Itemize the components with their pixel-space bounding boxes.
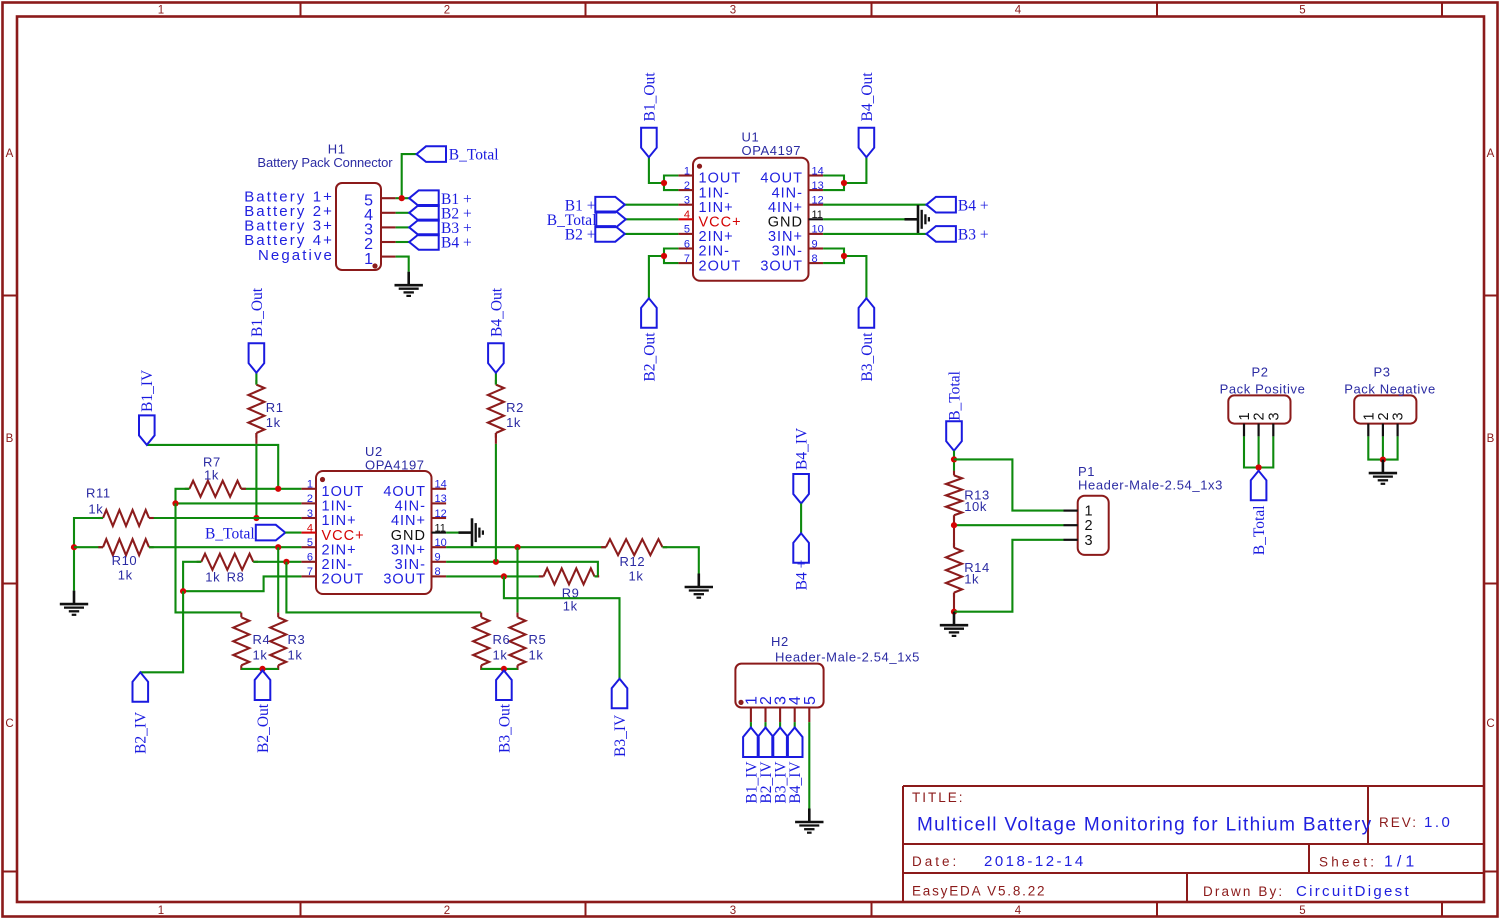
svg-text:3IN+: 3IN+ bbox=[768, 229, 803, 245]
svg-text:B4 +: B4 + bbox=[441, 235, 472, 252]
svg-text:1k: 1k bbox=[529, 648, 544, 663]
svg-text:P3: P3 bbox=[1373, 365, 1390, 380]
resistor R3 bbox=[277, 613, 279, 618]
svg-text:VCC+: VCC+ bbox=[322, 528, 365, 544]
wire 1IN- down to R4 bbox=[176, 503, 242, 612]
junction B3_Out bbox=[501, 666, 507, 672]
svg-text:4OUT: 4OUT bbox=[760, 171, 803, 187]
svg-text:2OUT: 2OUT bbox=[322, 572, 365, 588]
svg-text:B_Total: B_Total bbox=[205, 525, 255, 542]
junction R8/2OUT/B2_IV bbox=[180, 588, 186, 594]
svg-text:Pack Negative: Pack Negative bbox=[1344, 381, 1436, 396]
svg-text:3IN-: 3IN- bbox=[772, 244, 803, 260]
net flag B2 + at U1 bbox=[595, 226, 625, 242]
svg-text:10k: 10k bbox=[964, 499, 987, 514]
svg-text:B: B bbox=[1487, 433, 1495, 445]
svg-text:OPA4197: OPA4197 bbox=[365, 457, 425, 472]
ground at U1 pin11 (rotated) bbox=[905, 205, 929, 234]
svg-text:1k: 1k bbox=[964, 572, 979, 587]
junction R13 R14 bbox=[951, 522, 957, 528]
wire H1 pin1 to ground bbox=[396, 257, 409, 272]
net flag B_Total at P2 bbox=[1251, 471, 1267, 501]
svg-text:Header-Male-2.54_1x5: Header-Male-2.54_1x5 bbox=[775, 649, 920, 664]
net flag B1 + at U1 bbox=[595, 197, 625, 213]
svg-text:3: 3 bbox=[1391, 412, 1407, 420]
junction R1 1IN+ bbox=[253, 515, 259, 521]
svg-text:6: 6 bbox=[684, 238, 690, 250]
resistor R14 bbox=[953, 543, 955, 548]
svg-text:B1_IV: B1_IV bbox=[139, 369, 156, 412]
junction U1 pins 6-7 bbox=[661, 253, 667, 259]
junction U1 pins 13-14 bbox=[841, 180, 847, 186]
connector P3 Pack Negative bbox=[1354, 395, 1416, 436]
wire R12 right to ground bbox=[663, 547, 699, 573]
svg-text:1k: 1k bbox=[629, 569, 644, 584]
wire R9 right lead bbox=[595, 575, 598, 577]
wire R1 down to 1IN+ bbox=[255, 444, 257, 518]
net flag B2_IV at H2 bbox=[758, 728, 774, 758]
svg-text:3: 3 bbox=[730, 5, 736, 17]
svg-text:R6: R6 bbox=[493, 632, 511, 647]
svg-text:6: 6 bbox=[307, 552, 313, 564]
svg-text:5: 5 bbox=[1299, 905, 1305, 917]
svg-text:5: 5 bbox=[307, 537, 313, 549]
ground at R14 bbox=[940, 612, 968, 636]
junction 3IN- R2 bbox=[493, 559, 499, 565]
svg-text:4OUT: 4OUT bbox=[383, 484, 426, 500]
junction P2 bbox=[1256, 464, 1262, 470]
svg-text:3: 3 bbox=[730, 905, 736, 917]
net flag B_Total at U1 bbox=[596, 212, 626, 228]
connector H2 Header-Male-2.54_1x5 bbox=[735, 664, 823, 723]
svg-text:1k: 1k bbox=[506, 415, 521, 430]
net flag B3_IV bbox=[612, 679, 628, 709]
svg-text:2OUT: 2OUT bbox=[699, 258, 742, 274]
wire H2 pin1 to B1_IV bbox=[750, 722, 752, 728]
svg-text:2IN-: 2IN- bbox=[699, 244, 730, 260]
svg-text:4IN-: 4IN- bbox=[772, 185, 803, 201]
op-amp U1 OPA4197 bbox=[678, 158, 823, 281]
net flag B3 + at U1 bbox=[926, 226, 956, 242]
svg-text:1: 1 bbox=[364, 251, 373, 268]
net flag B1_IV bbox=[139, 415, 155, 445]
svg-text:B_Total: B_Total bbox=[449, 146, 499, 163]
svg-text:1: 1 bbox=[158, 905, 164, 917]
resistor R13 bbox=[953, 471, 955, 476]
wire B_Total to U2 VCC+ bbox=[285, 532, 301, 534]
net flag B3_Out at R5/R6 bbox=[496, 671, 512, 701]
resistor R2 bbox=[495, 380, 497, 385]
svg-text:2: 2 bbox=[1376, 412, 1392, 420]
svg-text:10: 10 bbox=[812, 224, 824, 236]
wire U2 1IN+ line with R11 bbox=[149, 517, 301, 519]
svg-text:4IN+: 4IN+ bbox=[768, 200, 803, 216]
svg-text:10: 10 bbox=[435, 537, 447, 549]
wire H1 pin5 to B1+ bbox=[396, 197, 410, 199]
svg-text:R3: R3 bbox=[288, 632, 306, 647]
svg-text:B4 +: B4 + bbox=[958, 197, 989, 214]
svg-text:3OUT: 3OUT bbox=[760, 258, 803, 274]
wire U1 3IN+ to B3+ bbox=[823, 233, 926, 235]
svg-text:1k: 1k bbox=[204, 468, 219, 483]
svg-text:5: 5 bbox=[684, 224, 690, 236]
resistor R5 bbox=[516, 613, 518, 618]
svg-text:TITLE:: TITLE: bbox=[912, 790, 965, 805]
svg-text:1IN-: 1IN- bbox=[322, 499, 353, 515]
svg-text:B1_Out: B1_Out bbox=[249, 287, 266, 337]
junction U1 pins 1-2 bbox=[661, 180, 667, 186]
svg-text:OPA4197: OPA4197 bbox=[742, 143, 802, 158]
svg-text:1k: 1k bbox=[493, 648, 508, 663]
svg-text:1IN+: 1IN+ bbox=[322, 513, 357, 529]
wire R3 R4 bottoms to B2_Out bbox=[241, 668, 278, 670]
wire H2 pin5 to ground bbox=[808, 722, 810, 808]
ground at R12 bbox=[685, 574, 713, 598]
resistor R11 bbox=[98, 517, 103, 519]
svg-text:1k: 1k bbox=[288, 648, 303, 663]
net flag B2 + bbox=[409, 205, 439, 221]
net flag B1_Out at U1 bbox=[641, 128, 657, 158]
svg-text:1OUT: 1OUT bbox=[699, 171, 742, 187]
svg-text:12: 12 bbox=[812, 195, 824, 207]
ground at R10/R11 rail bbox=[60, 591, 88, 615]
ground at P3 bbox=[1369, 460, 1397, 484]
svg-text:2IN+: 2IN+ bbox=[322, 542, 357, 558]
wire B2_IV riser bbox=[140, 591, 183, 672]
svg-text:GND: GND bbox=[391, 528, 426, 544]
svg-text:Pack Positive: Pack Positive bbox=[1220, 381, 1306, 396]
svg-text:4: 4 bbox=[1015, 5, 1022, 17]
svg-text:7: 7 bbox=[307, 566, 313, 578]
svg-text:3: 3 bbox=[684, 195, 690, 207]
svg-text:R8: R8 bbox=[227, 570, 245, 585]
svg-text:1/1: 1/1 bbox=[1384, 854, 1418, 871]
wire R13 top to P1 pin1 bbox=[954, 459, 1064, 510]
svg-text:B4_Out: B4_Out bbox=[859, 72, 876, 122]
wire R13 bottom bbox=[953, 515, 955, 547]
wire U2 3IN+ line to R12 bbox=[446, 546, 606, 548]
svg-text:2: 2 bbox=[307, 493, 313, 505]
wire R13/R14 mid to P1 pin2 bbox=[954, 524, 1064, 526]
svg-text:1.0: 1.0 bbox=[1424, 814, 1452, 831]
wire R7 left down to 1IN- bbox=[176, 489, 190, 504]
svg-text:2: 2 bbox=[1085, 518, 1093, 534]
junction B2_Out bbox=[259, 666, 265, 672]
wire B4_Out to U1 loop bbox=[844, 157, 866, 183]
connector P1 Header-Male-2.54_1x3 bbox=[1064, 496, 1109, 555]
wire B1_Out to R1 bbox=[255, 373, 257, 385]
svg-text:Drawn By:: Drawn By: bbox=[1203, 884, 1284, 899]
svg-text:A: A bbox=[1487, 148, 1495, 160]
junction ground rail R10 bbox=[71, 544, 77, 550]
svg-text:2: 2 bbox=[684, 180, 690, 192]
svg-text:7: 7 bbox=[684, 253, 690, 265]
svg-text:P2: P2 bbox=[1251, 365, 1268, 380]
wire B2_Out to U1 loop bbox=[649, 256, 664, 298]
wire U1 3IN--3OUT feedback loop bbox=[823, 249, 844, 264]
svg-text:R10: R10 bbox=[112, 553, 138, 568]
wire U2 1IN- line bbox=[176, 502, 302, 504]
wire B3_Out to U1 loop bbox=[844, 256, 866, 298]
svg-text:1: 1 bbox=[1085, 504, 1093, 520]
wire B1+ to U1 1IN+ bbox=[625, 204, 679, 206]
wire H2 pin2 to B2_IV bbox=[764, 722, 766, 728]
ground at H2 pin5 bbox=[795, 809, 823, 833]
svg-text:4IN+: 4IN+ bbox=[391, 513, 426, 529]
svg-text:VCC+: VCC+ bbox=[699, 215, 742, 231]
wire P2 pins to B_Total bbox=[1244, 436, 1273, 467]
wire R8 right to U2 2IN- bbox=[253, 561, 301, 563]
net flag B1_IV at H2 bbox=[743, 728, 759, 758]
svg-text:11: 11 bbox=[812, 209, 823, 221]
svg-text:H2: H2 bbox=[771, 634, 789, 649]
svg-text:8: 8 bbox=[435, 566, 441, 578]
net flag B1 + bbox=[409, 190, 439, 206]
wire B1_IV horizontal bbox=[147, 445, 278, 489]
svg-text:9: 9 bbox=[435, 552, 441, 564]
svg-text:B4 +: B4 + bbox=[794, 560, 811, 591]
wire H1 pin2 to B4+ bbox=[396, 241, 410, 243]
net flag B4_Out at U1 bbox=[859, 128, 875, 158]
svg-text:3IN-: 3IN- bbox=[395, 557, 426, 573]
net flag B4 + bbox=[409, 234, 439, 250]
svg-text:Header-Male-2.54_1x3: Header-Male-2.54_1x3 bbox=[1078, 478, 1223, 493]
wire R3 riser bbox=[277, 547, 279, 612]
wire B1_Out to U1 loop bbox=[649, 157, 664, 183]
wire 2IN- riser down to R6 bbox=[286, 562, 481, 613]
svg-text:B_Total: B_Total bbox=[946, 371, 963, 421]
svg-text:EasyEDA V5.8.22: EasyEDA V5.8.22 bbox=[912, 884, 1046, 899]
wire H2 pin4 to B4_IV bbox=[794, 722, 796, 728]
svg-text:B_Total: B_Total bbox=[1251, 505, 1268, 555]
junction 2IN- riser bbox=[283, 559, 289, 565]
svg-text:R12: R12 bbox=[620, 554, 646, 569]
net flag B4_Out at R2 bbox=[488, 343, 504, 373]
wire 2OUT loop bbox=[183, 576, 301, 591]
svg-text:2: 2 bbox=[444, 5, 450, 17]
svg-text:5: 5 bbox=[802, 696, 819, 705]
svg-text:4: 4 bbox=[684, 209, 690, 221]
svg-text:R2: R2 bbox=[506, 400, 524, 415]
svg-text:2IN-: 2IN- bbox=[322, 557, 353, 573]
wire B_Total to U1 VCC+ bbox=[626, 218, 679, 220]
wire R2 down to 3IN- bbox=[495, 444, 497, 562]
wire R10 left bbox=[74, 546, 103, 548]
net flag B3_Out at U1 bbox=[859, 298, 875, 328]
svg-text:CircuitDigest: CircuitDigest bbox=[1296, 883, 1411, 900]
resistor R6 bbox=[480, 613, 482, 618]
wire U2 3IN- line bbox=[446, 562, 598, 577]
net flag B1_Out at R1 bbox=[249, 343, 265, 373]
wire R5 R6 bottoms to B3_Out bbox=[481, 668, 517, 670]
wire R2 lead bbox=[495, 433, 497, 444]
svg-text:3OUT: 3OUT bbox=[383, 572, 426, 588]
net flag B3 + bbox=[409, 220, 439, 236]
net flag B_Total at R13 bbox=[946, 421, 962, 451]
resistor R9 bbox=[539, 575, 544, 577]
svg-text:3: 3 bbox=[1085, 533, 1093, 549]
svg-text:B3_IV: B3_IV bbox=[612, 714, 629, 757]
svg-text:1k: 1k bbox=[563, 599, 578, 614]
svg-text:12: 12 bbox=[435, 508, 447, 520]
svg-text:Date:: Date: bbox=[912, 854, 959, 869]
svg-text:B2_IV: B2_IV bbox=[133, 711, 150, 754]
svg-text:11: 11 bbox=[435, 522, 446, 534]
svg-text:1k: 1k bbox=[205, 570, 220, 585]
svg-text:R11: R11 bbox=[86, 486, 111, 501]
svg-text:14: 14 bbox=[435, 479, 447, 491]
wire U1 2IN--2OUT feedback loop bbox=[664, 249, 678, 264]
svg-text:4IN-: 4IN- bbox=[395, 499, 426, 515]
resistor R4 bbox=[240, 613, 242, 618]
svg-text:GND: GND bbox=[768, 215, 803, 231]
net flag B_Total at U2 VCC+ bbox=[256, 525, 285, 541]
wire B_Total to R13 bbox=[953, 451, 955, 471]
junction U1 pins 8-9 bbox=[841, 253, 847, 259]
svg-text:2: 2 bbox=[444, 905, 450, 917]
wire B3_IV path bbox=[504, 576, 620, 678]
svg-text:2IN+: 2IN+ bbox=[699, 229, 734, 245]
svg-text:4: 4 bbox=[307, 522, 313, 534]
resistor R10 bbox=[98, 546, 103, 548]
net flag B2_IV bbox=[133, 672, 149, 702]
svg-text:4: 4 bbox=[1015, 905, 1022, 917]
ground at U2 pin11 (rotated) bbox=[459, 518, 483, 547]
svg-text:C: C bbox=[1486, 718, 1494, 730]
wire P3 pins to ground bbox=[1368, 436, 1397, 459]
wire R5 riser bbox=[516, 547, 518, 612]
svg-text:B3 +: B3 + bbox=[958, 227, 989, 244]
resistor R7 bbox=[185, 488, 190, 490]
svg-text:1: 1 bbox=[307, 479, 313, 491]
svg-text:Sheet:: Sheet: bbox=[1319, 855, 1377, 870]
wire R7 right to U2 1OUT bbox=[241, 488, 301, 490]
wire U2 GND to ground bbox=[446, 532, 458, 534]
svg-text:Negative: Negative bbox=[258, 247, 334, 264]
junction P3 bbox=[1380, 457, 1386, 463]
wire U2 2IN+ line bbox=[149, 546, 301, 548]
svg-text:5: 5 bbox=[1299, 5, 1305, 17]
resistor R8 bbox=[197, 561, 202, 563]
junction 3IN+ R5 bbox=[514, 544, 520, 550]
svg-text:1k: 1k bbox=[88, 502, 103, 517]
svg-text:1: 1 bbox=[1361, 412, 1377, 420]
wire R8 left down bbox=[183, 562, 201, 591]
net flag B3_IV at H2 bbox=[772, 728, 788, 758]
svg-text:1IN+: 1IN+ bbox=[699, 200, 734, 216]
svg-text:1OUT: 1OUT bbox=[322, 484, 365, 500]
svg-text:9: 9 bbox=[812, 238, 818, 250]
title block bbox=[903, 786, 1484, 902]
svg-text:REV:: REV: bbox=[1379, 815, 1418, 830]
junction 2IN+ R3 bbox=[275, 544, 281, 550]
svg-text:1: 1 bbox=[1237, 412, 1253, 420]
wire B4_IV to B4+ bbox=[800, 504, 802, 534]
svg-text:2018-12-14: 2018-12-14 bbox=[984, 853, 1086, 870]
resistor R12 bbox=[601, 546, 606, 548]
wire U2 3OUT line with R9 bbox=[446, 575, 543, 577]
svg-text:B: B bbox=[6, 433, 14, 445]
wire U1 4OUT-4IN- feedback loop bbox=[823, 176, 844, 191]
svg-text:B3_Out: B3_Out bbox=[496, 703, 513, 753]
svg-text:A: A bbox=[6, 148, 14, 160]
junction 1IN- R7 bbox=[172, 500, 178, 506]
wire U1 4IN+ to B4+ bbox=[823, 204, 926, 206]
wire U1 GND to ground bbox=[823, 218, 904, 220]
svg-text:R5: R5 bbox=[529, 632, 547, 647]
svg-text:B3_Out: B3_Out bbox=[859, 332, 876, 382]
svg-text:R4: R4 bbox=[253, 632, 271, 647]
svg-text:2: 2 bbox=[1252, 412, 1268, 420]
svg-text:1: 1 bbox=[684, 165, 690, 177]
resistor R1 bbox=[255, 380, 257, 385]
junction at H1 pin5 bbox=[399, 195, 405, 201]
svg-text:B2_Out: B2_Out bbox=[641, 332, 658, 382]
net flag B4_IV at H2 bbox=[787, 728, 803, 758]
wire U1 1OUT-1IN- feedback loop bbox=[664, 176, 678, 191]
net flag B2_Out at R3/R4 bbox=[255, 671, 271, 701]
svg-text:Battery Pack Connector: Battery Pack Connector bbox=[257, 155, 393, 170]
wire H2 pin3 to B3_IV bbox=[779, 722, 781, 728]
net flag B4 + at U1 bbox=[926, 197, 956, 213]
svg-text:1IN-: 1IN- bbox=[699, 185, 730, 201]
svg-text:B2 +: B2 + bbox=[565, 227, 596, 244]
junction 3OUT B3_IV bbox=[501, 573, 507, 579]
op-amp U2 OPA4197 bbox=[301, 471, 446, 594]
svg-text:13: 13 bbox=[812, 180, 824, 192]
svg-text:14: 14 bbox=[812, 165, 824, 177]
svg-text:1: 1 bbox=[158, 5, 164, 17]
junction B_Total R13 bbox=[951, 456, 957, 462]
svg-text:1k: 1k bbox=[118, 568, 133, 583]
wire R14 bottom to P1 pin3 bbox=[954, 540, 1064, 612]
svg-text:B4_Out: B4_Out bbox=[488, 287, 505, 337]
wire B4_Out to R2 bbox=[495, 373, 497, 385]
net flag B4_IV bbox=[793, 474, 809, 504]
svg-text:B2_Out: B2_Out bbox=[255, 703, 272, 753]
svg-text:B4_IV: B4_IV bbox=[787, 761, 804, 804]
wire H1 pin3 to B3+ bbox=[396, 226, 410, 228]
wire R11 left to ground rail bbox=[74, 518, 103, 591]
svg-text:B4_IV: B4_IV bbox=[794, 427, 811, 470]
svg-text:Multicell Voltage Monitoring f: Multicell Voltage Monitoring for Lithium… bbox=[917, 815, 1373, 836]
net flag B_Total at H1 bbox=[417, 146, 447, 162]
svg-text:3: 3 bbox=[307, 508, 313, 520]
svg-text:R1: R1 bbox=[266, 400, 284, 415]
junction 1OUT B1_IV bbox=[275, 486, 281, 492]
wire R14 bottom to ground bbox=[953, 593, 955, 612]
svg-text:8: 8 bbox=[812, 253, 818, 265]
net flag B4 + (mid) bbox=[793, 533, 809, 563]
connector P2 Pack Positive bbox=[1228, 395, 1290, 436]
svg-text:3IN+: 3IN+ bbox=[391, 542, 426, 558]
wire B_Total riser at H1 bbox=[402, 154, 417, 198]
svg-text:B1_Out: B1_Out bbox=[641, 72, 658, 122]
svg-text:C: C bbox=[5, 718, 13, 730]
junction R14 bottom bbox=[951, 609, 957, 615]
connector H1 Battery Pack Connector bbox=[336, 183, 396, 270]
svg-text:3: 3 bbox=[1266, 412, 1282, 420]
wire B2+ to U1 2IN+ bbox=[625, 233, 679, 235]
ground at H1 pin1 bbox=[395, 272, 423, 296]
net flag B2_Out at U1 bbox=[641, 298, 657, 328]
svg-text:13: 13 bbox=[435, 493, 447, 505]
svg-text:1k: 1k bbox=[266, 415, 281, 430]
wire H1 pin4 to B2+ bbox=[396, 212, 410, 214]
svg-text:1k: 1k bbox=[253, 648, 268, 663]
